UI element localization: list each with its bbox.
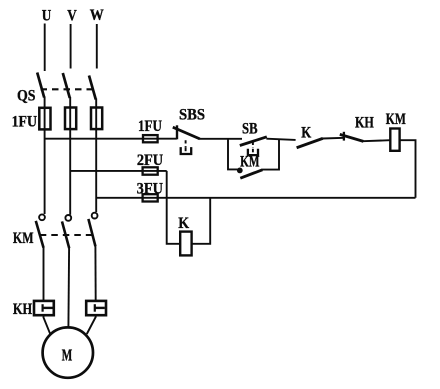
wire: SB to K contact [266, 139, 295, 140]
junction dot: KM aux fixed contact [237, 168, 243, 174]
label K (contact) [301, 124, 311, 141]
disconnect switch QS pole 2 blade [63, 73, 70, 98]
thermal relay heater element KH 1 [34, 301, 54, 315]
thermal relay contact KH (NC): blade [340, 134, 364, 141]
wire: phase V supply line [70, 24, 72, 69]
wire: phase U supply line [44, 24, 46, 72]
label KH (contact) [355, 114, 374, 131]
svg-text:QS: QS [17, 87, 36, 104]
wire: phase W supply line [96, 24, 98, 69]
wire: drop from 2FU to K coil [167, 171, 181, 244]
label KM (main contacts) [13, 230, 34, 247]
svg-text:W: W [90, 7, 104, 24]
fuse 1FU pole 3 [91, 108, 102, 130]
label QS [17, 87, 36, 104]
svg-text:K: K [301, 124, 311, 141]
wire: control return / 3FU line (W phase tap) [96, 197, 415, 199]
svg-text:3FU: 3FU [137, 180, 164, 197]
contactor coil KM [390, 129, 399, 151]
thermal relay heater element KH 2 [86, 301, 106, 315]
wire: 2FU tap from V line [70, 170, 167, 172]
label SBS [179, 107, 205, 124]
label SB [242, 120, 258, 137]
KM main contacts mechanical link (dashed) [40, 234, 97, 236]
node U (phase label) [42, 7, 52, 24]
svg-text:2FU: 2FU [137, 152, 164, 169]
wire: KH heater 2 to motor [87, 315, 96, 334]
label 3FU [137, 180, 164, 197]
label 2FU [137, 152, 164, 169]
svg-text:SB: SB [242, 120, 258, 137]
motor M [43, 327, 93, 377]
wire: K to KH contact [323, 137, 345, 140]
node W (phase label) [90, 7, 104, 24]
relay coil K [180, 232, 191, 256]
svg-text:KH: KH [355, 114, 374, 131]
node V (phase label) [67, 7, 77, 24]
fuse 1FU pole 1 [39, 108, 50, 130]
svg-text:1FU: 1FU [12, 114, 38, 131]
label K (coil) [178, 215, 189, 232]
wire: W line from QS through fuse to KM pole 3 [95, 99, 97, 213]
wire: KM pole 3 to KH heater 2 [94, 246, 96, 302]
svg-text:U: U [42, 7, 52, 24]
svg-text:KM: KM [386, 111, 406, 128]
contactor KM main contact pole 3 [88, 213, 97, 246]
wire: KH heater 1 to motor [44, 315, 51, 334]
wire: U line from QS through fuse to KM pole 1 [44, 97, 46, 215]
wire: control tap from U line to SBS [45, 138, 177, 140]
contactor auxiliary contact KM (NO self-holding) blade [240, 170, 262, 178]
wire: K coil to return riser [192, 198, 211, 244]
wire: self-hold branch left drop [228, 139, 238, 170]
fuse 1FU (control circuit) [143, 135, 158, 142]
QS mechanical link (dashed) [41, 88, 93, 90]
svg-text:KH: KH [13, 301, 33, 318]
label KM (aux contact) [240, 153, 259, 170]
label M (motor) [62, 346, 73, 365]
pushbutton SBS (NC stop contact) [173, 125, 200, 154]
svg-text:V: V [67, 7, 77, 24]
wire: SBS to SB / branch node [200, 138, 243, 140]
contactor KM main contact pole 1 [36, 214, 45, 247]
svg-text:M: M [62, 346, 73, 365]
label 1FU (main fuses) [12, 114, 38, 131]
label KM (coil) [386, 111, 406, 128]
svg-text:SBS: SBS [179, 107, 205, 124]
svg-text:K: K [178, 215, 189, 232]
relay contact K (NO) blade [297, 138, 323, 147]
fuse 3FU [143, 194, 158, 201]
contactor KM main contact pole 2 [62, 215, 71, 248]
label 1FU (control fuse) [138, 118, 162, 135]
svg-text:KM: KM [13, 230, 34, 247]
wire: branch bottom right and right riser [262, 139, 279, 170]
thermal relay contact KH (NC): seat tick [343, 132, 345, 141]
fuse 1FU pole 2 [65, 108, 76, 130]
wire: KM pole 1 to KH heater 1 [43, 247, 45, 302]
wire: KM pole 2 to motor [67, 248, 70, 329]
wire: KH to KM coil [363, 140, 390, 141]
wire: V line from QS through fuse to KM pole 2 [69, 97, 71, 215]
svg-text:1FU: 1FU [138, 118, 162, 135]
wire: KM coil to right riser and control return [400, 140, 416, 198]
fuse 2FU [143, 167, 158, 174]
disconnect switch QS pole 3 blade [89, 76, 96, 100]
disconnect switch QS pole 1 blade [37, 73, 44, 98]
pushbutton SB (NO start contact) [240, 137, 267, 155]
label KH (heater elements) [13, 301, 33, 318]
